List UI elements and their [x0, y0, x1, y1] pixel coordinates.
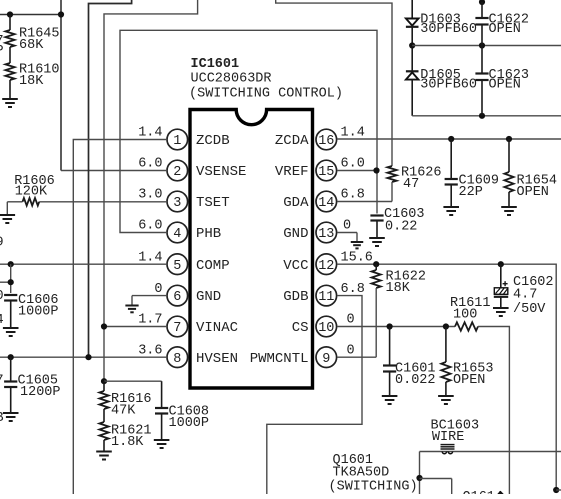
svg-text:7: 7 [0, 374, 4, 389]
svg-text:0.022: 0.022 [395, 373, 436, 388]
pin 11 GDB [283, 285, 336, 306]
wire R1611 to bottom edge [478, 327, 509, 495]
wire C1622 to rail [481, 25, 483, 46]
resistor R1626 [387, 166, 441, 193]
wire BC1603 down to Q1601 [419, 452, 421, 495]
svg-text:12: 12 [318, 259, 334, 274]
node VREF junction [373, 167, 379, 173]
partial label 4 (cut) [0, 313, 4, 328]
svg-text:3: 3 [173, 196, 181, 211]
pin 1 ZCDB [167, 129, 230, 150]
capacitor C1602 electrolytic [494, 264, 554, 317]
svg-text:VREF: VREF [275, 164, 309, 180]
label TK8A50D [333, 466, 390, 481]
svg-text:/50V: /50V [513, 302, 546, 317]
svg-text:30PFB60: 30PFB60 [420, 78, 477, 93]
svg-text:1: 1 [173, 134, 181, 149]
svg-text:18K: 18K [19, 74, 44, 89]
svg-text:PWMCNTL: PWMCNTL [250, 351, 309, 367]
ground divider [2, 80, 18, 107]
svg-text:OPEN: OPEN [453, 373, 485, 388]
svg-text:120K: 120K [15, 185, 48, 200]
voltage label 6.8 pin 11 [341, 282, 365, 297]
wire COMP pin 5 to left edge [0, 263, 167, 265]
pin 12 VCC [283, 254, 336, 275]
svg-text:7: 7 [173, 321, 181, 336]
svg-text:10: 10 [318, 321, 334, 336]
svg-text:VSENSE: VSENSE [196, 164, 246, 180]
resistor R1610 [5, 47, 59, 89]
node VINAC junction [101, 323, 107, 329]
ground C1601 [382, 372, 398, 405]
svg-text:B: B [0, 411, 4, 426]
svg-text:0: 0 [154, 282, 162, 297]
node HVSEN/C1605 junction [8, 354, 14, 360]
wire vertical to VSENSE [61, 0, 167, 171]
wire HVSEN horizontal pin 8 [0, 356, 167, 358]
wire PHB net [120, 30, 377, 232]
svg-text:6.0: 6.0 [138, 219, 162, 234]
svg-text:4: 4 [0, 313, 4, 328]
voltage label 3.0 pin 3 [138, 188, 162, 203]
ground R1653 [438, 382, 454, 404]
svg-text:TSET: TSET [196, 195, 230, 211]
svg-text:IC1601: IC1601 [191, 57, 240, 72]
resistor R1653 [441, 327, 493, 389]
node R1616/C1608 junction [101, 378, 107, 384]
node Q1601 drain junction [416, 475, 422, 481]
node C1601 junction [387, 323, 393, 329]
wire VINAC net from top edge [104, 0, 198, 381]
partial label B (cut) [0, 411, 4, 426]
pin 3 TSET [167, 191, 230, 212]
ground R1654 [501, 192, 517, 215]
wire CS pin 10 [337, 326, 455, 328]
svg-text:15: 15 [318, 165, 334, 180]
wire Q1601 box top [420, 479, 452, 495]
diode D1603 [406, 13, 477, 38]
partial label P (cut) [0, 44, 4, 59]
diode tip (cut) bottom edge [497, 491, 503, 494]
partial label 0 (cut) [0, 289, 4, 304]
svg-text:OPEN: OPEN [489, 22, 521, 37]
svg-text:6.0: 6.0 [341, 157, 365, 172]
svg-text:3.6: 3.6 [138, 343, 162, 358]
node bottom right corner [553, 487, 561, 493]
wire R1622 to PWMCNTL [375, 288, 377, 357]
svg-text:0.22: 0.22 [385, 220, 417, 235]
wire TSET stub [39, 201, 167, 203]
svg-text:1.4: 1.4 [138, 250, 162, 265]
svg-text:(SWITCHING CONTROL): (SWITCHING CONTROL) [189, 87, 343, 102]
node HVSEN/W1 junction [85, 354, 91, 360]
capacitor C1623 [475, 46, 529, 93]
label (SWITCHING CONTROL) [189, 87, 343, 102]
wire pin 13 GND stub [337, 233, 357, 243]
capacitor C1622 [475, 2, 529, 37]
ground C1606 [3, 301, 19, 337]
node C1623 bottom junction [479, 113, 485, 119]
svg-text:8: 8 [173, 352, 181, 367]
svg-text:ZCDB: ZCDB [196, 133, 230, 149]
svg-text:6.8: 6.8 [341, 282, 365, 297]
wire D1603 to rail [411, 27, 413, 72]
pin 4 PHB [167, 222, 221, 243]
wire GDB pin 11 route to bottom [267, 296, 362, 494]
svg-text:TK8A50D: TK8A50D [333, 466, 390, 481]
svg-text:UCC28063DR: UCC28063DR [191, 72, 272, 87]
node top C1622 [479, 0, 485, 5]
svg-text:(SWITCHING): (SWITCHING) [329, 480, 418, 495]
ground pin 13 [351, 242, 363, 248]
svg-text:15.6: 15.6 [341, 250, 373, 265]
node C1622 bottom junction [479, 42, 485, 48]
label Q1601 [333, 453, 374, 468]
svg-text:COMP: COMP [196, 258, 230, 274]
svg-text:6.0: 6.0 [138, 157, 162, 172]
wire C1623 to lower rail [481, 80, 483, 116]
svg-text:GDB: GDB [283, 289, 308, 305]
svg-text:OPEN: OPEN [517, 185, 549, 200]
wire VREF rail top-left [0, 14, 61, 16]
wire lower rail to right edge [412, 115, 561, 117]
ground C1608 [154, 414, 170, 449]
ground R1606 [0, 215, 15, 223]
diode D1605 [406, 68, 477, 93]
svg-text:GND: GND [283, 226, 308, 242]
voltage label 1.4 pin 5 [138, 250, 162, 265]
pin 16 ZCDA [275, 129, 337, 150]
wire D1605 to lower rail [411, 80, 413, 116]
svg-text:11: 11 [318, 290, 334, 305]
pin 7 VINAC [167, 316, 238, 337]
voltage label 6.0 pin 15 [341, 157, 365, 172]
voltage label 0 pin 13 [343, 219, 351, 234]
wire R1626 to GDA [337, 182, 392, 202]
voltage label 6.0 pin 2 [138, 157, 162, 172]
label (SWITCHING) [329, 480, 418, 495]
svg-text:1000P: 1000P [18, 305, 59, 320]
capacitor C1606 [4, 293, 58, 320]
partial label Q1614 (cut) [463, 490, 504, 499]
svg-text:18K: 18K [386, 281, 411, 296]
label UCC28063DR [191, 72, 272, 87]
resistor R1616 [99, 381, 151, 418]
wire stub to left edge y282 [0, 264, 11, 293]
svg-text:VCC: VCC [283, 258, 308, 274]
svg-text:9: 9 [0, 236, 4, 251]
node R1653 junction [443, 323, 449, 329]
svg-text:9: 9 [322, 352, 330, 367]
pin 10 CS [292, 316, 337, 337]
wire diode column from top [411, 0, 413, 19]
node junction rail/divider [7, 11, 13, 17]
svg-text:P: P [0, 44, 4, 59]
node junction rail/vertical [58, 11, 64, 17]
svg-text:16: 16 [318, 134, 334, 149]
node C1602 junction [498, 261, 504, 267]
voltage label 1.7 pin 7 [138, 313, 162, 328]
wire R1606 to ground [7, 202, 22, 215]
svg-text:6.8: 6.8 [341, 188, 365, 203]
resistor R1645 [5, 15, 59, 54]
svg-text:OPEN: OPEN [489, 78, 521, 93]
ground C1603 [369, 221, 385, 247]
pin 2 VSENSE [167, 160, 246, 181]
svg-text:ZCDA: ZCDA [275, 133, 309, 149]
capacitor C1603 [370, 207, 424, 235]
node R1654 junction [506, 136, 512, 142]
svg-text:GDA: GDA [283, 195, 309, 211]
capacitor C1608 [155, 381, 209, 431]
svg-text:VINAC: VINAC [196, 320, 238, 336]
svg-text:Q1614: Q1614 [463, 490, 504, 494]
resistor R1654 [504, 139, 557, 200]
capacitor C1601 [383, 327, 436, 389]
wire VINAC horizontal pin 7 [104, 326, 167, 328]
wire VCC pin 12 to right then down [337, 264, 556, 490]
svg-text:5: 5 [173, 259, 181, 274]
node C1609 junction [448, 136, 454, 142]
svg-text:22P: 22P [459, 185, 483, 200]
capacitor C1605 [4, 357, 60, 400]
pin 15 VREF [275, 160, 337, 181]
svg-text:0: 0 [0, 289, 4, 304]
ferrite bead BC1603 WIRE [431, 419, 480, 454]
svg-text:68K: 68K [19, 38, 44, 53]
svg-text:GND: GND [196, 289, 221, 305]
svg-text:0: 0 [347, 343, 355, 358]
pin 5 COMP [167, 254, 230, 275]
pin 9 PWMCNTL [250, 347, 337, 368]
svg-text:3.0: 3.0 [138, 188, 162, 203]
voltage label 15.6 pin 12 [341, 250, 373, 265]
wire BC1603 line [420, 451, 561, 453]
node COMP junction [8, 261, 14, 267]
capacitor C1609 [445, 139, 499, 200]
svg-text:1000P: 1000P [169, 416, 210, 431]
wire HVSEN net from top edge [89, 0, 132, 357]
resistor R1606 [14, 174, 55, 206]
wire to C1608 [104, 380, 162, 382]
voltage label 6.0 pin 4 [138, 219, 162, 234]
voltage label 0 pin 6 [154, 282, 162, 297]
pin 13 GND [283, 222, 336, 243]
pin 8 HVSEN [167, 347, 238, 368]
svg-text:13: 13 [318, 227, 334, 242]
svg-text:1.8K: 1.8K [111, 435, 144, 450]
resistor R1622 [372, 264, 426, 296]
svg-text:PHB: PHB [196, 226, 221, 242]
voltage label 6.8 pin 14 [341, 188, 365, 203]
svg-text:100: 100 [453, 308, 477, 323]
voltage label 0 pin 10 [347, 313, 355, 328]
resistor R1621 [99, 409, 151, 450]
svg-text:30PFB60: 30PFB60 [420, 22, 477, 37]
svg-text:0: 0 [343, 219, 351, 234]
svg-text:1.4: 1.4 [138, 126, 162, 141]
label IC1601 [191, 57, 240, 72]
svg-text:WIRE: WIRE [432, 430, 464, 445]
resistor R1611 [450, 296, 491, 331]
svg-text:4: 4 [173, 227, 181, 242]
svg-text:HVSEN: HVSEN [196, 351, 238, 367]
wire ZCDB pin 1 to bottom edge [73, 140, 167, 495]
svg-text:0: 0 [347, 313, 355, 328]
svg-text:4.7: 4.7 [513, 288, 537, 303]
svg-text:6: 6 [173, 290, 181, 305]
pin 14 GDA [283, 191, 336, 212]
svg-text:1.7: 1.7 [138, 313, 162, 328]
partial label 7 (cut) at C1605 [0, 374, 4, 389]
ground C1602 [493, 297, 509, 316]
ground pin 6 [125, 306, 138, 313]
voltage label 3.6 pin 8 [138, 343, 162, 358]
wire VREF stub pin 15 [337, 170, 377, 172]
wire pin 6 GND stub [132, 296, 167, 306]
op-amp/controller IC1601 UCC28063DR body [190, 110, 313, 389]
wire R1626 net from top edge [276, 0, 392, 166]
voltage label 1.4 pin 1 [138, 126, 162, 141]
node diode rail junction [409, 42, 415, 48]
ground C1605 [3, 387, 19, 421]
wire mid rail to right edge [412, 45, 561, 47]
voltage label 0 pin 9 [347, 343, 355, 358]
svg-text:2: 2 [173, 165, 181, 180]
svg-text:14: 14 [318, 196, 334, 211]
partial label 9 (cut) [0, 236, 4, 251]
svg-text:1200P: 1200P [20, 385, 61, 400]
svg-text:CS: CS [292, 320, 309, 336]
wire PWMCNTL stub pin 9 [337, 356, 376, 358]
node junction y282 [8, 279, 14, 285]
svg-text:47: 47 [403, 177, 419, 192]
wire ZCDA pin 16 to right edge [337, 138, 561, 140]
node R1622 junction [373, 261, 379, 267]
ground C1609 [443, 185, 459, 216]
ground R1621 [96, 440, 112, 460]
voltage label 1.4 pin 16 [341, 126, 365, 141]
pin 6 GND [167, 285, 221, 306]
partial label 7 (cut) [0, 34, 4, 49]
svg-text:47K: 47K [111, 404, 136, 419]
